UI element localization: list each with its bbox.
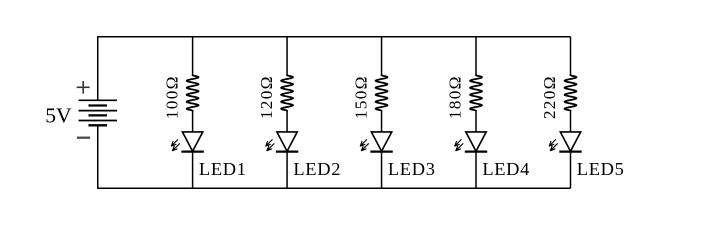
LED D5 triangle (anode) — [560, 132, 580, 151]
svg-text:220Ω: 220Ω — [540, 75, 559, 119]
LED D2 cathode bar — [276, 151, 298, 153]
LED D4 light emission arrows — [455, 140, 463, 151]
resistor R4 180Ω — [470, 75, 482, 111]
wire branch 5 lower lead — [570, 152, 572, 189]
wire battery bottom lead — [97, 125, 99, 189]
LED D3 cathode bar — [370, 151, 392, 153]
wire bottom rail — [98, 187, 571, 189]
battery plus terminal mark — [77, 81, 90, 94]
resistor R5 220Ω — [565, 75, 577, 111]
wire branch 3 middle lead — [381, 110, 383, 132]
LED D4 triangle (anode) — [466, 132, 486, 151]
wire branch 4 upper lead — [475, 37, 477, 76]
wire branch 1 lower lead — [192, 152, 194, 189]
LED D5 light emission arrows — [549, 140, 557, 151]
LED D2 light emission arrows — [266, 140, 274, 151]
LED D5 cathode bar — [559, 151, 581, 153]
wire branch 4 lower lead — [475, 152, 477, 189]
wire branch 3 lower lead — [381, 152, 383, 189]
wire branch 5 upper lead — [570, 37, 572, 76]
svg-text:LED3: LED3 — [388, 159, 436, 179]
resistor R2 120Ω — [281, 75, 293, 111]
svg-text:150Ω: 150Ω — [351, 75, 370, 119]
svg-text:120Ω: 120Ω — [257, 75, 276, 119]
svg-text:LED4: LED4 — [482, 159, 530, 179]
wire battery top lead — [97, 36, 99, 100]
LED D1 light emission arrows — [171, 140, 179, 151]
resistor R1 100Ω — [187, 75, 199, 111]
svg-text:100Ω: 100Ω — [162, 75, 181, 119]
battery minus terminal mark — [77, 137, 90, 139]
wire top rail — [98, 36, 571, 38]
LED D1 triangle (anode) — [182, 132, 202, 151]
wire branch 2 lower lead — [286, 152, 288, 189]
resistor R3 150Ω — [376, 75, 388, 111]
LED D4 cathode bar — [465, 151, 487, 153]
svg-text:LED2: LED2 — [293, 159, 341, 179]
svg-text:180Ω: 180Ω — [446, 75, 465, 119]
svg-text:LED5: LED5 — [577, 159, 625, 179]
wire branch 5 middle lead — [570, 110, 572, 132]
wire branch 1 upper lead — [192, 37, 194, 76]
wire branch 2 middle lead — [286, 110, 288, 132]
LED D1 cathode bar — [181, 151, 203, 153]
wire branch 1 middle lead — [192, 110, 194, 132]
LED D3 triangle (anode) — [371, 132, 391, 151]
LED D2 triangle (anode) — [277, 132, 297, 151]
LED D3 light emission arrows — [360, 140, 368, 151]
battery V1 5V — [79, 100, 117, 125]
wire branch 2 upper lead — [286, 37, 288, 76]
svg-text:5V: 5V — [45, 103, 72, 127]
wire branch 4 middle lead — [475, 110, 477, 132]
svg-text:LED1: LED1 — [199, 159, 247, 179]
wire branch 3 upper lead — [381, 37, 383, 76]
